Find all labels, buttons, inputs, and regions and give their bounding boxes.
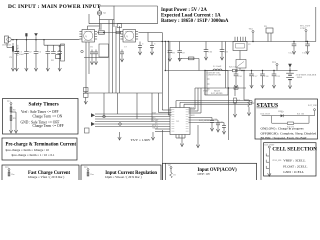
svg-text:CELLS: CELLS [152,127,158,129]
svg-text:OVP : 6V: OVP : 6V [198,172,211,176]
svg-text:CELL SELECTION: CELL SELECTION [272,147,317,153]
svg-text:Pre-charge & Termination Curre: Pre-charge & Termination Current [6,142,77,147]
svg-text:Vref : Safe Timer <= OFF: Vref : Safe Timer <= OFF [21,110,58,114]
svg-text:VREF: VREF [203,91,209,93]
svg-text:BAT_SENSE: BAT_SENSE [199,119,211,122]
svg-text:TS/V = 1.96V: TS/V = 1.96V [131,138,151,142]
svg-text:FLOAT : 2CELL: FLOAT : 2CELL [283,164,307,168]
svg-text:TP2: TP2 [5,167,9,169]
svg-text:VOUT: VOUT [300,27,307,30]
svg-text:L1 10uH: L1 10uH [213,66,222,68]
svg-text:Ipre-charge = Iterm = 1 / 10 =: Ipre-charge = Iterm = 1 / 10 = 0.1 [12,153,55,157]
svg-text:Ipre-charge = Iterm = Icharge: Ipre-charge = Iterm = Icharge / 10 [6,148,50,152]
svg-text:Rac: Rac [91,174,94,176]
svg-text:C20: C20 [214,119,217,121]
svg-text:TP1: TP1 [7,101,11,103]
svg-text:R9: R9 [13,118,15,120]
svg-text:BAT_STAT: BAT_STAT [261,112,271,115]
svg-text:Rsr: Rsr [12,174,15,176]
svg-text:TS: TS [155,122,157,124]
svg-text:U2: U2 [248,44,250,46]
svg-text:CURRENT PATH: CURRENT PATH [207,74,222,77]
svg-text:REGN: REGN [214,91,220,93]
svg-text:BATTERY_HOLDER: BATTERY_HOLDER [297,73,317,76]
svg-text:Q: Q [126,35,128,38]
svg-text:LED1: LED1 [278,111,283,113]
svg-text:18650: 18650 [297,77,303,79]
svg-text:Battery : 18650 / 1S1P / 3000m: Battery : 18650 / 1S1P / 3000mA [161,19,229,24]
svg-text:ON(LOW) : Charge in progress: ON(LOW) : Charge in progress [261,126,305,130]
svg-text:VREF : 3CELL: VREF : 3CELL [283,159,305,163]
svg-text:CON_DC1: CON_DC1 [2,44,11,46]
svg-text:BAT_VREF: BAT_VREF [308,104,319,107]
svg-text:R31 100: R31 100 [297,113,304,115]
svg-text:Icharge = Vfast / ( 20 X Rsr ): Icharge = Vfast / ( 20 X Rsr ) [28,175,64,179]
svg-text:Idpm = Vin-set / ( 20 X Rac ): Idpm = Vin-set / ( 20 X Rac ) [105,175,141,179]
svg-text:Charge Term <= ON: Charge Term <= ON [33,114,63,118]
svg-text:DC INPUT : MAIN POWER INPUT: DC INPUT : MAIN POWER INPUT [8,4,101,10]
svg-text:10uF: 10uF [19,53,25,56]
svg-text:Safety Timers: Safety Timers [29,102,59,108]
svg-text:Expected Load Current : 1A: Expected Load Current : 1A [161,13,221,18]
svg-text:VIN_PROT: VIN_PROT [17,44,20,56]
svg-text:SRN: SRN [191,115,195,117]
svg-text:Q: Q [85,35,87,38]
svg-text:R21: R21 [237,100,240,102]
svg-text:R8: R8 [13,110,15,112]
svg-text:CELL_SEL: CELL_SEL [272,160,282,162]
svg-text:GND : 1CELL: GND : 1CELL [283,170,304,174]
svg-text:Charge Term <= OFF: Charge Term <= OFF [33,124,64,128]
svg-text:R25 0.010: R25 0.010 [229,67,239,69]
svg-text:C21: C21 [220,122,223,124]
svg-text:Input Power : 5V / 2A: Input Power : 5V / 2A [161,8,207,13]
